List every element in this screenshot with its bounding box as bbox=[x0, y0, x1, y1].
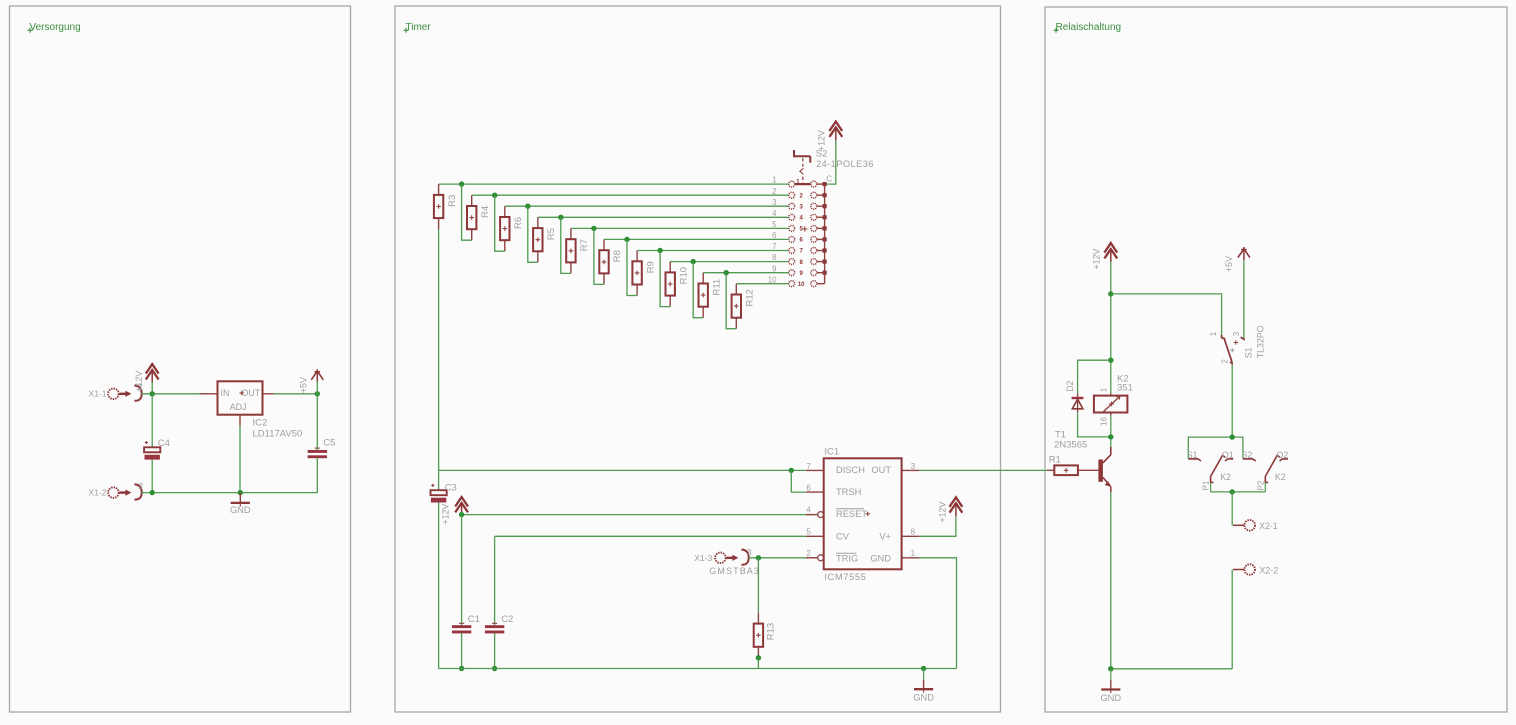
wire RESET net bbox=[461, 515, 463, 516]
svg-text:DISCH: DISCH bbox=[836, 465, 865, 475]
svg-text:TRIG: TRIG bbox=[836, 554, 858, 564]
svg-text:P1: P1 bbox=[1202, 480, 1211, 490]
wire CV net bbox=[495, 535, 806, 537]
junction bbox=[1230, 489, 1235, 494]
connector pin X2-1 bbox=[1233, 520, 1278, 531]
junction bbox=[921, 666, 926, 671]
wire ADJ to rail bbox=[239, 426, 241, 493]
junction bbox=[1108, 434, 1113, 439]
svg-text:R13: R13 bbox=[766, 623, 777, 640]
junction bbox=[459, 181, 464, 186]
svg-text:1: 1 bbox=[1100, 387, 1109, 392]
svg-text:ICM7555: ICM7555 bbox=[824, 572, 866, 583]
wire net 5 bbox=[571, 227, 789, 229]
resistor R10 bbox=[666, 262, 690, 307]
svg-text:R4: R4 bbox=[480, 206, 491, 218]
svg-text:D2: D2 bbox=[1065, 380, 1075, 391]
junction bbox=[238, 490, 243, 495]
svg-text:Timer: Timer bbox=[406, 22, 432, 33]
svg-text:LD117AV50: LD117AV50 bbox=[253, 428, 303, 439]
frame Timer bbox=[395, 6, 1001, 712]
svg-text:V+: V+ bbox=[879, 531, 891, 541]
resistor R6 bbox=[500, 206, 524, 251]
ground GND bbox=[913, 669, 934, 703]
frame label Relaischaltung bbox=[1054, 22, 1122, 33]
svg-text:+12V: +12V bbox=[1091, 249, 1101, 270]
connector pin X2-2 bbox=[1233, 564, 1278, 575]
svg-text:S2: S2 bbox=[1242, 450, 1253, 460]
wire GND pin to rail bbox=[919, 558, 956, 669]
resistor R13 bbox=[754, 558, 777, 658]
wire net 6 bbox=[604, 238, 789, 240]
wire V+ to +12V bbox=[919, 516, 956, 536]
svg-text:3: 3 bbox=[1232, 331, 1241, 336]
svg-text:+12V: +12V bbox=[134, 371, 144, 392]
svg-text:1: 1 bbox=[772, 176, 776, 185]
supply +5V symbol bbox=[299, 369, 324, 393]
frame Versorgung bbox=[10, 6, 351, 712]
resistor R7 bbox=[566, 228, 590, 273]
timer IC1 bbox=[806, 447, 920, 583]
relay contact K2 first bbox=[1187, 450, 1234, 492]
junction bbox=[492, 193, 497, 198]
svg-text:Versorgung: Versorgung bbox=[30, 22, 81, 33]
capacitor C2 bbox=[485, 536, 513, 668]
ground GND bbox=[1100, 669, 1121, 703]
svg-text:10: 10 bbox=[768, 275, 777, 284]
wire net 1 bbox=[439, 183, 789, 185]
svg-text:8: 8 bbox=[911, 528, 916, 537]
voltage regulator IC2 bbox=[200, 381, 303, 439]
svg-text:X1-3: X1-3 bbox=[694, 553, 712, 563]
wire branch to R9 bbox=[627, 239, 637, 295]
svg-text:O2: O2 bbox=[1277, 450, 1289, 460]
svg-text:+5V: +5V bbox=[299, 377, 309, 393]
relay contact K2 second bbox=[1242, 450, 1289, 492]
relay coil K2 bbox=[1094, 373, 1133, 426]
svg-text:8: 8 bbox=[772, 253, 777, 262]
svg-text:4: 4 bbox=[772, 209, 777, 218]
svg-text:7: 7 bbox=[806, 462, 811, 471]
svg-text:GND: GND bbox=[870, 554, 891, 564]
svg-text:IC2: IC2 bbox=[253, 418, 268, 429]
svg-text:OUT: OUT bbox=[871, 465, 891, 475]
svg-text:K2: K2 bbox=[1220, 472, 1231, 482]
svg-text:4: 4 bbox=[806, 506, 811, 515]
svg-text:RESET: RESET bbox=[836, 509, 867, 519]
svg-text:3: 3 bbox=[772, 198, 777, 207]
svg-text:C2: C2 bbox=[501, 614, 513, 625]
wire S1 pin2 down bbox=[1231, 365, 1233, 437]
svg-text:R3: R3 bbox=[447, 195, 458, 207]
supply +5V symbol bbox=[1224, 247, 1250, 272]
svg-text:C: C bbox=[826, 173, 832, 183]
svg-text:10: 10 bbox=[798, 282, 805, 288]
supply +12V symbol at S2 bbox=[816, 122, 842, 152]
resistor R9 bbox=[632, 251, 656, 296]
wire bottom rail bbox=[142, 492, 241, 494]
wire branch to R6 bbox=[495, 195, 505, 251]
svg-text:S1: S1 bbox=[1243, 347, 1253, 358]
svg-text:2: 2 bbox=[806, 549, 811, 558]
capacitor C4 bbox=[144, 394, 170, 493]
svg-text:R8: R8 bbox=[612, 250, 623, 262]
frame label Versorgung bbox=[28, 22, 81, 33]
svg-text:X1-2: X1-2 bbox=[89, 487, 107, 497]
svg-text:R10: R10 bbox=[678, 267, 689, 284]
junction bbox=[1230, 434, 1235, 439]
wire emitter to ground rail bbox=[1110, 492, 1112, 669]
svg-text:CV: CV bbox=[836, 531, 850, 541]
wire branch to R10 bbox=[660, 251, 670, 307]
wire TRSH link bbox=[791, 470, 806, 492]
ground GND bbox=[230, 493, 251, 515]
svg-text:C4: C4 bbox=[158, 438, 170, 449]
wire OUT net to R1 bbox=[919, 469, 1047, 471]
wire net 2 bbox=[472, 194, 789, 196]
svg-text:S1: S1 bbox=[1187, 450, 1198, 460]
wire TRIG net bbox=[749, 557, 818, 559]
supply +12V symbol bbox=[134, 364, 159, 392]
svg-text:ADJ: ADJ bbox=[230, 402, 247, 412]
capacitor C3 bbox=[431, 483, 457, 503]
wire +5V stem bbox=[316, 381, 318, 394]
wire to switch S1 bbox=[1111, 294, 1222, 335]
svg-text:351: 351 bbox=[1117, 382, 1133, 393]
wire branch to R11 bbox=[693, 262, 703, 318]
wire coil to collector bbox=[1110, 416, 1112, 447]
svg-text:O1: O1 bbox=[1222, 450, 1234, 460]
svg-text:3: 3 bbox=[747, 547, 752, 557]
wire +12V stem bbox=[151, 382, 153, 394]
svg-text:+12V: +12V bbox=[938, 502, 948, 523]
wire R3 bottom to C3 bbox=[438, 229, 440, 490]
resistor R12 bbox=[732, 284, 756, 329]
wire S2 common to +12V bbox=[827, 140, 836, 184]
svg-text:GND: GND bbox=[1100, 693, 1121, 703]
wire net 10 bbox=[736, 283, 788, 285]
svg-text:TL32PO: TL32PO bbox=[1256, 325, 1266, 358]
rotary switch S2 bbox=[768, 149, 874, 288]
resistor R4 bbox=[467, 195, 491, 240]
svg-text:R12: R12 bbox=[745, 289, 756, 306]
svg-text:Relaischaltung: Relaischaltung bbox=[1056, 22, 1122, 33]
wire branch to R8 bbox=[594, 228, 604, 284]
svg-text:+12V: +12V bbox=[816, 130, 826, 151]
wire +5V to S1 pin 3 bbox=[1243, 260, 1245, 338]
junction bbox=[789, 468, 794, 473]
wire branch to R5 bbox=[528, 206, 538, 262]
svg-text:5: 5 bbox=[772, 220, 777, 229]
wire R13 to rail bbox=[757, 658, 759, 669]
diode D2 bbox=[1065, 360, 1111, 437]
wire IC2 OUT to +5V node bbox=[274, 393, 318, 395]
svg-text:R1: R1 bbox=[1049, 455, 1061, 466]
svg-text:IN: IN bbox=[221, 388, 230, 398]
wire branch to R7 bbox=[561, 217, 571, 273]
svg-text:2N3565: 2N3565 bbox=[1054, 439, 1087, 450]
wire net 9 bbox=[703, 272, 788, 274]
junction bbox=[525, 204, 530, 209]
svg-text:9: 9 bbox=[772, 264, 777, 273]
wire ground rail bbox=[1111, 668, 1232, 670]
supply +12V symbol at IC1 bbox=[938, 497, 963, 522]
resistor R5 bbox=[533, 217, 557, 262]
svg-text:3: 3 bbox=[911, 462, 916, 471]
svg-text:R9: R9 bbox=[645, 261, 656, 273]
svg-text:GND: GND bbox=[230, 505, 251, 515]
svg-text:R6: R6 bbox=[513, 217, 524, 229]
junction bbox=[558, 215, 563, 220]
connector pin X1-2 bbox=[89, 481, 144, 500]
frame label Timer bbox=[404, 22, 432, 33]
svg-text:X2-2: X2-2 bbox=[1260, 565, 1279, 575]
svg-text:1: 1 bbox=[911, 549, 916, 558]
svg-text:24-1POLE36: 24-1POLE36 bbox=[816, 159, 874, 169]
junction bbox=[150, 490, 155, 495]
svg-text:K2: K2 bbox=[1275, 472, 1286, 482]
frame Relaischaltung bbox=[1045, 7, 1507, 712]
svg-text:GMSTBA3: GMSTBA3 bbox=[709, 566, 760, 576]
supply +12V symbol at C1 bbox=[440, 497, 468, 525]
svg-text:IC1: IC1 bbox=[824, 447, 839, 458]
svg-text:C1: C1 bbox=[468, 614, 480, 625]
wire net 4 bbox=[538, 216, 789, 218]
svg-text:TRSH: TRSH bbox=[836, 487, 861, 497]
junction bbox=[459, 512, 464, 517]
capacitor C1 bbox=[452, 515, 480, 669]
resistor R8 bbox=[599, 239, 623, 284]
svg-text:R7: R7 bbox=[579, 239, 590, 251]
wire contacts common bbox=[1211, 491, 1266, 493]
wire +12V down to relay bbox=[1110, 262, 1112, 393]
resistor R11 bbox=[699, 273, 723, 318]
svg-text:+12V: +12V bbox=[440, 504, 450, 525]
svg-text:R11: R11 bbox=[711, 279, 722, 296]
wire to X2-1 bbox=[1231, 492, 1233, 525]
supply +12V symbol bbox=[1091, 243, 1117, 269]
svg-text:C5: C5 bbox=[323, 438, 335, 449]
resistor R3 bbox=[434, 184, 458, 229]
wire branch to R4 bbox=[462, 184, 472, 240]
svg-text:1: 1 bbox=[1209, 331, 1218, 336]
svg-text:+5V: +5V bbox=[1224, 256, 1234, 272]
junction bbox=[591, 226, 596, 231]
svg-text:5: 5 bbox=[806, 528, 811, 537]
wire net 7 bbox=[637, 250, 788, 252]
svg-text:7: 7 bbox=[772, 242, 776, 251]
junction bbox=[1108, 291, 1113, 296]
junction bbox=[1108, 666, 1113, 671]
connector pin X1-3 bbox=[694, 547, 760, 576]
wire C3 to bottom rail bbox=[438, 503, 440, 669]
junction bbox=[315, 391, 320, 396]
capacitor C5 bbox=[240, 394, 335, 493]
wire X1-1 to IC2 IN bbox=[142, 393, 208, 395]
junction bbox=[1108, 358, 1113, 363]
junction bbox=[657, 248, 662, 253]
wire bottom rail bbox=[439, 668, 957, 670]
svg-text:2: 2 bbox=[772, 187, 776, 196]
junction bbox=[150, 391, 155, 396]
svg-text:X1-1: X1-1 bbox=[89, 388, 107, 398]
svg-text:OUT: OUT bbox=[242, 388, 261, 398]
wire to X2-2 bbox=[1231, 570, 1233, 669]
svg-text:16: 16 bbox=[1100, 417, 1109, 426]
junction bbox=[724, 270, 729, 275]
svg-text:6: 6 bbox=[806, 484, 811, 493]
junction bbox=[756, 655, 761, 660]
svg-text:P2: P2 bbox=[1256, 480, 1265, 490]
transistor T1 bbox=[1054, 429, 1111, 492]
svg-text:2: 2 bbox=[138, 481, 143, 491]
connector pin X1-1 bbox=[89, 382, 144, 401]
junction bbox=[691, 259, 696, 264]
junction bbox=[756, 555, 761, 560]
wire DISCH net bbox=[439, 469, 806, 471]
wire net 3 bbox=[505, 205, 789, 207]
wire contacts feed bbox=[1188, 437, 1243, 459]
junction bbox=[624, 237, 629, 242]
junction bbox=[492, 666, 497, 671]
svg-text:X2-1: X2-1 bbox=[1259, 521, 1278, 531]
svg-text:2: 2 bbox=[1221, 359, 1230, 364]
toggle switch S1 bbox=[1209, 325, 1266, 365]
wire net 8 bbox=[670, 261, 788, 263]
svg-text:GND: GND bbox=[913, 693, 934, 703]
svg-text:6: 6 bbox=[772, 231, 777, 240]
svg-text:C3: C3 bbox=[445, 483, 457, 494]
svg-text:R5: R5 bbox=[546, 228, 557, 240]
wire branch to R12 bbox=[726, 273, 736, 329]
resistor R1 bbox=[1047, 455, 1099, 475]
junction bbox=[459, 666, 464, 671]
